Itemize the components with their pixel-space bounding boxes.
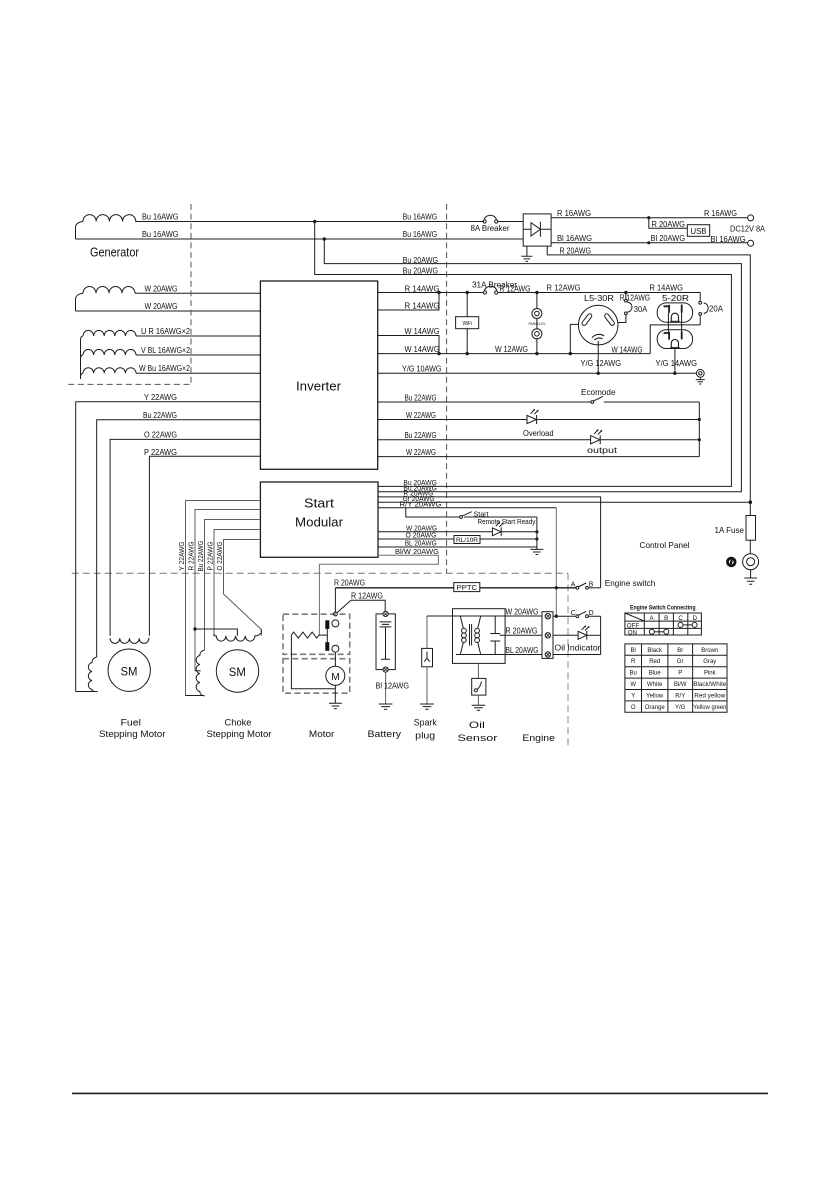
svg-text:R 16AWG: R 16AWG [704, 209, 737, 218]
svg-text:C: C [571, 610, 576, 617]
wire choke R 22AWG (y=509.5) [195, 510, 260, 671]
wire Bu 16AWG top (y=221.5) [136, 221, 484, 223]
wire R 20AWG control feed (down right side) [547, 246, 750, 515]
svg-text:WiFi: WiFi [463, 321, 473, 327]
junction dot W pair [437, 352, 440, 355]
inverter U1 box [260, 281, 377, 469]
svg-text:W 20AWG: W 20AWG [145, 284, 178, 293]
svg-text:Bu 22AWG: Bu 22AWG [405, 431, 437, 440]
svg-text:Gray: Gray [703, 659, 716, 665]
winding choke horizontal coil [214, 630, 261, 642]
wire R row to LED [553, 634, 578, 636]
generator winding L5 (W Bu 16AWGx2) [81, 373, 84, 379]
svg-text:D: D [693, 615, 698, 622]
junction dot node on Bu16 top [313, 220, 316, 223]
svg-text:USB: USB [691, 227, 707, 236]
breaker CB2 31A [483, 291, 486, 294]
svg-text:1A Fuse: 1A Fuse [715, 526, 745, 535]
svg-text:8A Breaker: 8A Breaker [471, 224, 510, 233]
junction dot WiFi bottom [466, 352, 469, 355]
wire W 20AWG bottom (y=311) [76, 310, 261, 312]
wire Bu 22AWG (y=419.7) [97, 420, 261, 657]
svg-text:V BL 16AWG×2: V BL 16AWG×2 [141, 346, 190, 355]
terminal DC12V - [748, 240, 754, 246]
capacitor C1 [490, 616, 500, 655]
terminal ring control panel [743, 554, 759, 570]
svg-text:M: M [331, 671, 340, 683]
ignition coil T1 box [453, 609, 506, 664]
wire R 20AWG (y=498.3 to engine switch) [378, 497, 601, 588]
wire BL row (y=654.5) [553, 654, 601, 656]
svg-text:Blue: Blue [649, 671, 662, 677]
generator winding L1 (Bu 16AWG pair) [76, 222, 84, 240]
svg-text:Orange: Orange [645, 705, 666, 711]
wire O 22AWG (y=439.4) [110, 439, 260, 635]
resistor solenoid coil zigzag [291, 632, 327, 638]
engine switch connecting table [625, 613, 702, 635]
resistor RL/10R box [454, 536, 480, 544]
svg-text:Bu 22AWG: Bu 22AWG [405, 393, 437, 402]
dashed generator boundary horizontal [68, 383, 191, 385]
LED remote start ready [492, 522, 503, 536]
junction dot R14 pair [437, 291, 440, 294]
wire Bu 22AWG output (y=439.7) [378, 439, 700, 441]
wire O 20AWG (y=539) [378, 538, 537, 540]
svg-text:Remote Start Ready: Remote Start Ready [478, 519, 536, 526]
svg-text:Bu 20AWG: Bu 20AWG [403, 484, 437, 493]
transformer lead shapes [460, 616, 480, 655]
svg-text:Bu 16AWG: Bu 16AWG [142, 212, 179, 221]
connector CN1 [542, 612, 553, 659]
wire V (y=355) [136, 354, 260, 356]
svg-text:R 22AWG: R 22AWG [189, 542, 196, 571]
svg-text:Choke: Choke [225, 718, 252, 728]
wire W (y=373.3) [136, 372, 260, 374]
wire R 20AWG to USB [649, 218, 688, 229]
svg-text:Bl 12AWG: Bl 12AWG [376, 681, 410, 690]
wire fuel bottom link [76, 691, 98, 693]
svg-text:Y 22AWG: Y 22AWG [179, 542, 186, 571]
svg-text:Start: Start [474, 512, 489, 519]
wire W 22AWG overload (y=419.5) [378, 419, 700, 421]
wire W 20AWG top (y=293.3) [135, 292, 260, 294]
wire choke Y 22AWG (y=500.5) [186, 501, 261, 696]
svg-text:Bl/W 20AWG: Bl/W 20AWG [395, 547, 439, 556]
svg-text:P 22AWG: P 22AWG [144, 448, 177, 457]
wire R 16AWG (y=217.7) [551, 217, 748, 219]
svg-text:R 12AWG: R 12AWG [547, 284, 581, 293]
svg-text:W: W [630, 682, 636, 688]
junction dot WiFi tap [466, 291, 469, 294]
svg-text:Bl 20AWG: Bl 20AWG [651, 234, 686, 243]
generator winding L2 (W 20AWG pair) [76, 293, 84, 311]
svg-text:30A: 30A [634, 305, 648, 314]
svg-text:BL 20AWG: BL 20AWG [506, 646, 539, 655]
ground (battery) [379, 704, 393, 709]
PPTC rail wire (y=587.8) [335, 587, 576, 589]
junction dot R/Y on C row [555, 615, 558, 618]
svg-text:R 14AWG: R 14AWG [405, 284, 440, 293]
wire solenoid to PPTC rail [334, 588, 336, 612]
USB module box [687, 225, 709, 237]
svg-text:Bu 16AWG: Bu 16AWG [403, 230, 438, 239]
solenoid terminal small [334, 612, 338, 616]
svg-text:SM: SM [229, 667, 246, 679]
svg-text:L5-30R: L5-30R [584, 294, 614, 303]
wire Bu 20AWG loop B (to start modular) [324, 239, 741, 492]
receptacle J2 5-20R duplex upper [657, 303, 692, 322]
wire W 14AWG second (y=353.6) [378, 353, 651, 355]
oil indicator box right edge [600, 616, 602, 654]
wire W 20AWG (coil to connector) [505, 615, 545, 617]
wire coil bottom lead [456, 654, 495, 656]
svg-text:R/Y 20AWG: R/Y 20AWG [400, 500, 442, 509]
wire W 20AWG remote LED (y=531.8) [378, 531, 537, 533]
svg-text:Spark: Spark [414, 718, 437, 728]
svg-text:R 20AWG: R 20AWG [506, 627, 538, 636]
svg-text:White: White [647, 682, 663, 688]
receptacle J2 5-20R duplex lower [657, 330, 692, 349]
LED oil indicator [578, 626, 589, 640]
dashed middle boundary vertical [446, 204, 448, 573]
footer rule [72, 1092, 768, 1094]
svg-text:Y/G 10AWG: Y/G 10AWG [402, 364, 442, 373]
ground (start circuit) [530, 549, 543, 554]
svg-text:R 12AWG: R 12AWG [620, 294, 651, 303]
ground (motor) [329, 703, 342, 708]
wire choke Bu 22AWG (y=519.5) [205, 520, 261, 651]
wire start switch stub (y=517) [406, 508, 537, 517]
junction dot on Bl wire [647, 241, 650, 244]
wire choke O 22AWG (y=539.5) [224, 540, 262, 636]
svg-text:Bu: Bu [630, 671, 637, 677]
svg-text:R 16AWG: R 16AWG [557, 209, 591, 218]
wire L5-30R ground drop [597, 341, 599, 374]
svg-text:Motor: Motor [309, 729, 335, 739]
start modular U2 box [260, 482, 378, 557]
ground (spark plug) [420, 704, 434, 709]
svg-text:Battery: Battery [368, 729, 402, 739]
wire choke P 22AWG (y=529.5) [214, 530, 260, 634]
svg-text:Y/G 14AWG: Y/G 14AWG [656, 359, 698, 368]
transformer secondary loops [475, 628, 480, 633]
svg-text:Stepping Motor: Stepping Motor [99, 729, 166, 739]
rectifier D1 box [523, 214, 551, 246]
svg-text:Generator: Generator [90, 246, 139, 260]
svg-text:Engine: Engine [522, 733, 555, 743]
wire solenoid coil left lead [291, 635, 335, 689]
solenoid contact circles [332, 620, 339, 627]
junction dot R/Y on PPTC rail [555, 586, 558, 589]
receptacle J1 L5-30R [578, 305, 618, 345]
wire W 22AWG return (y=456.6) [378, 456, 700, 458]
engine switch A-B [576, 586, 579, 589]
svg-text:O 22AWG: O 22AWG [144, 431, 177, 440]
wire BL 20AWG (y=547) [378, 546, 537, 548]
svg-text:20A: 20A [709, 305, 724, 314]
wire Gr 20AWG (y=502.9 to control panel) [378, 501, 750, 503]
wire Y 22AWG (y=401.7) [76, 402, 261, 692]
svg-text:Yellow green: Yellow green [693, 705, 726, 711]
svg-text:Y: Y [631, 693, 635, 699]
wire breaker to diode box [498, 221, 523, 223]
wire color legend table [625, 644, 727, 712]
svg-text:Fuel: Fuel [121, 718, 142, 728]
wire R/Y drop to engine (gray) [555, 508, 557, 616]
svg-text:W 22AWG: W 22AWG [406, 448, 436, 457]
svg-text:W 20AWG: W 20AWG [145, 302, 178, 311]
svg-text:O: O [631, 705, 636, 711]
wire Bl 16AWG (y=242.8) [551, 242, 748, 244]
svg-text:Engine Switch Connecting: Engine Switch Connecting [630, 604, 696, 611]
terminal DC12V + [748, 215, 754, 221]
svg-text:DC12V 8A: DC12V 8A [730, 225, 766, 234]
wire choke R to winding mid [195, 670, 201, 672]
ground (control panel) [744, 570, 757, 585]
switch SW-eco [591, 401, 594, 404]
wire Bu 16AWG bottom (y=239) [76, 238, 524, 240]
svg-text:Black/White: Black/White [693, 682, 727, 688]
svg-text:Yellow: Yellow [646, 693, 664, 699]
svg-text:Gr: Gr [677, 659, 684, 665]
PPTC box [454, 583, 480, 592]
svg-text:PARALLEL: PARALLEL [529, 322, 546, 326]
svg-text:Stepping Motor: Stepping Motor [207, 729, 272, 739]
wire R/Y 20AWG (y=508) [378, 507, 556, 509]
svg-text:R 14AWG: R 14AWG [405, 302, 440, 311]
wire battery to ground [385, 672, 387, 704]
svg-text:R 12AWG: R 12AWG [500, 285, 531, 294]
diode symbol inside D1 [523, 222, 551, 237]
svg-text:W Bu 16AWG×2: W Bu 16AWG×2 [139, 364, 190, 373]
dashed relay box lower [283, 659, 350, 694]
dashed generator boundary vertical [190, 204, 192, 384]
LED output [591, 429, 603, 444]
wire W to 5-20R neutral [650, 325, 700, 354]
svg-text:R/Y: R/Y [675, 693, 685, 699]
svg-text:output: output [587, 446, 618, 455]
wire Y/G 10AWG ground bus (y=373.3) [378, 372, 697, 374]
junction dot W/left contact [569, 352, 572, 355]
motor circle SM (fuel) [108, 649, 150, 691]
breaker 20A with terminals [699, 293, 701, 302]
svg-text:PPTC: PPTC [457, 583, 478, 592]
oil sensor S1 [477, 663, 479, 678]
svg-text:Inverter: Inverter [296, 379, 342, 394]
WiFi module box [466, 293, 468, 317]
svg-text:Pink: Pink [704, 671, 717, 677]
wire joining 5-20R hot slots [681, 313, 683, 332]
junction dot parallel tap top [535, 291, 538, 294]
svg-text:W 14AWG: W 14AWG [405, 345, 440, 354]
svg-text:Y/G 12AWG: Y/G 12AWG [581, 359, 622, 368]
svg-text:Bl: Bl [631, 648, 636, 654]
svg-text:R: R [631, 659, 636, 665]
OFF row contacts C-D [678, 622, 683, 627]
generator winding L4 (V BL 16AWGx2) [81, 355, 84, 360]
svg-text:Bu 20AWG: Bu 20AWG [403, 266, 438, 275]
junction dot parallel bottom [535, 352, 538, 355]
svg-text:P: P [678, 671, 682, 677]
svg-text:RL/10R: RL/10R [456, 537, 478, 544]
svg-text:P 22AWG: P 22AWG [208, 542, 215, 571]
svg-text:Black: Black [647, 648, 663, 654]
svg-text:Modular: Modular [295, 515, 344, 530]
svg-text:U R 16AWG×2: U R 16AWG×2 [141, 327, 190, 336]
wire Bu 22AWG ecomode (y=402) [378, 401, 591, 403]
engine switch C-D [576, 615, 579, 618]
dashed engine boundary vertical [567, 573, 569, 747]
svg-text:Red yellow: Red yellow [694, 693, 726, 699]
wire solenoid to motor [334, 652, 336, 666]
wire U (y=336) [136, 335, 260, 337]
svg-text:Bl 16AWG: Bl 16AWG [557, 234, 592, 243]
svg-text:Bu 16AWG: Bu 16AWG [142, 230, 179, 239]
svg-text:Control Panel: Control Panel [640, 540, 690, 550]
svg-text:W 12AWG: W 12AWG [495, 345, 528, 354]
wire L5-30R left contact to W wire [570, 324, 578, 353]
wire Bl/W 20AWG loop (y=555.3) [319, 555, 438, 635]
ON row contacts A-B [649, 629, 654, 634]
svg-text:W 22AWG: W 22AWG [406, 411, 436, 420]
transformer primary loops [462, 628, 467, 633]
svg-text:B: B [589, 581, 594, 588]
wire joining 5-20R neutral slots [667, 313, 669, 332]
breaker CB1 8A [483, 220, 486, 223]
svg-text:Brown: Brown [701, 648, 718, 654]
wire R 14AWG from inverter (y=292.5) [378, 292, 701, 294]
screw icon [726, 557, 736, 567]
wire W 14AWG first (y=335.5) [378, 336, 439, 354]
ground screw terminal [696, 369, 704, 377]
wire B to vertical [588, 587, 600, 589]
starter motor M [326, 666, 345, 685]
wire Bu 20AWG loop A (to start modular) [315, 222, 732, 487]
junction dot node on Bu16 bottom [323, 237, 326, 240]
junction dot 30A tap [624, 291, 627, 294]
svg-text:Oil Indicator: Oil Indicator [555, 643, 601, 652]
solenoid plunger bar [326, 629, 328, 643]
junction dot for USB tap [647, 216, 650, 219]
wire C row (y=616.2) [553, 615, 601, 617]
svg-text:W 14AWG: W 14AWG [612, 346, 643, 355]
solenoid contact plates [325, 620, 329, 629]
svg-text:W 20AWG: W 20AWG [506, 607, 539, 616]
wire BL 20AWG (coil to connector) [495, 654, 545, 656]
winding fuel vertical coil [88, 657, 97, 692]
generator winding L3 (U R 16AWGx2) [81, 336, 84, 379]
wire R 14AWG second (y=310) [378, 293, 439, 311]
svg-text:Bu 16AWG: Bu 16AWG [403, 213, 438, 222]
svg-text:Overload: Overload [523, 429, 554, 438]
wire 5-20R ground drop [674, 348, 676, 374]
svg-text:B: B [664, 615, 668, 622]
svg-text:Red: Red [649, 659, 660, 665]
svg-text:OFF: OFF [627, 623, 640, 630]
wire R 20AWG (points) [500, 634, 546, 636]
svg-text:SM: SM [121, 666, 138, 678]
svg-text:Ecomode: Ecomode [581, 388, 616, 397]
wire P 22AWG (y=456.2) [149, 456, 260, 636]
transformer core [470, 624, 472, 646]
battery BT1 [376, 614, 395, 670]
breaker 30A with terminals [625, 293, 627, 300]
winding fuel horizontal coil [110, 638, 149, 643]
svg-text:R 20AWG: R 20AWG [560, 246, 592, 255]
ground (oil sensor) [472, 705, 486, 710]
svg-text:Y 22AWG: Y 22AWG [144, 393, 177, 402]
wire R 12AWG to battery [337, 600, 385, 612]
svg-text:Bl 16AWG: Bl 16AWG [711, 235, 746, 244]
svg-text:plug: plug [415, 731, 435, 741]
svg-text:Bu 20AWG: Bu 20AWG [403, 256, 438, 265]
LED overload [527, 409, 539, 424]
svg-text:D: D [589, 610, 594, 617]
wire indicator bus vertical [698, 402, 700, 457]
svg-text:Br: Br [677, 648, 683, 654]
fuse F1 1A [746, 516, 756, 541]
parallel port terminals [536, 293, 538, 354]
svg-text:O 22AWG: O 22AWG [217, 542, 224, 571]
wire choke center tap [193, 627, 196, 630]
winding choke vertical coil [196, 650, 204, 696]
svg-text:Y/G: Y/G [675, 705, 686, 711]
svg-text:R 20AWG: R 20AWG [652, 220, 686, 229]
wire choke Y bottom link [186, 695, 205, 697]
svg-text:Oil: Oil [469, 720, 485, 730]
dashed lower boundary horizontal [72, 572, 568, 574]
switch SW-start [460, 516, 463, 519]
spark plug P1 [426, 616, 428, 648]
svg-text:A: A [571, 581, 576, 588]
dashed relay box upper [283, 614, 350, 654]
ground of D1 [521, 246, 532, 261]
svg-text:5-20R: 5-20R [662, 294, 689, 303]
svg-text:Bu 22AWG: Bu 22AWG [198, 541, 205, 572]
svg-text:Sensor: Sensor [458, 733, 498, 743]
svg-text:Engine switch: Engine switch [605, 578, 656, 588]
motor circle SM (choke) [216, 650, 258, 692]
svg-text:R 12AWG: R 12AWG [351, 592, 383, 601]
wire coil top lead to spark plug [427, 615, 505, 617]
svg-text:R 20AWG: R 20AWG [334, 579, 365, 588]
svg-text:W 14AWG: W 14AWG [405, 327, 440, 336]
svg-text:C: C [678, 615, 683, 622]
svg-text:R 14AWG: R 14AWG [650, 284, 684, 293]
svg-text:Bl/W: Bl/W [674, 682, 687, 688]
wire start ground bus vertical [536, 517, 538, 549]
svg-text:ON: ON [628, 630, 637, 637]
svg-text:Start: Start [304, 496, 334, 511]
svg-text:Bu 22AWG: Bu 22AWG [143, 411, 177, 420]
